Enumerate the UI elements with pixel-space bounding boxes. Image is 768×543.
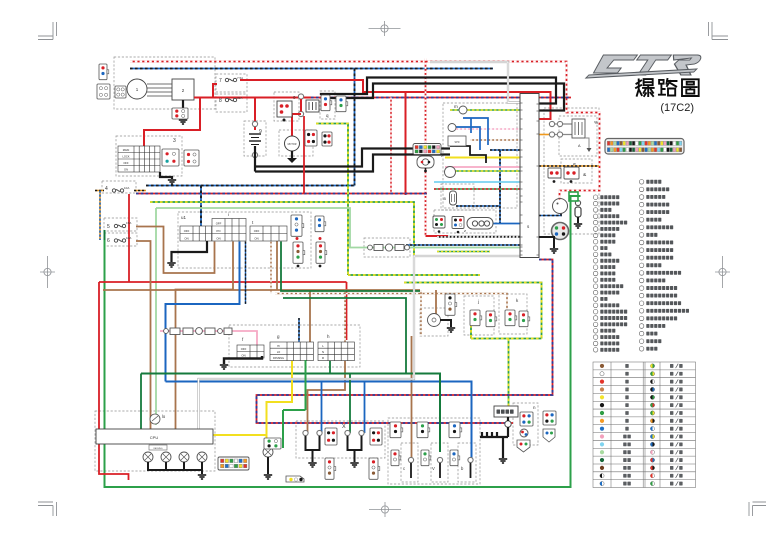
connector row bottom 3	[449, 422, 462, 438]
svg-text:4: 4	[105, 186, 108, 192]
wire pink resistor chain to switch f	[160, 331, 257, 345]
svg-text:LOCK: LOCK	[122, 155, 129, 159]
svg-text:N: N	[322, 350, 324, 354]
connectors right of u1	[291, 215, 304, 236]
meter lamp high beam	[263, 447, 273, 457]
wire red rectifier output	[194, 84, 217, 98]
wire brown to ignition coil 1	[308, 360, 346, 433]
svg-text:OFF: OFF	[184, 229, 190, 233]
svg-text:15A: 15A	[126, 221, 131, 225]
AC generator 1 symbol	[127, 79, 172, 99]
ground main switch	[160, 172, 172, 179]
svg-text:j: j	[477, 299, 479, 304]
ignition coil A box	[572, 119, 585, 138]
left connector block	[97, 84, 110, 99]
wire green-yellow bus mid	[150, 202, 414, 275]
enclosure meter assembly box	[443, 103, 517, 208]
legend list left column items 1-25	[593, 195, 598, 200]
enclosure CPU unit box	[95, 411, 215, 471]
unit s pin marks	[520, 103, 539, 255]
rear connectors &	[548, 168, 561, 178]
connectors right of n	[543, 411, 556, 425]
wire red lower-left loop	[99, 281, 347, 283]
connector mid j area	[445, 294, 457, 315]
left connector pair top	[99, 64, 109, 80]
wire yellow branch to CPU	[214, 434, 267, 436]
svg-text:30A: 30A	[237, 96, 242, 100]
wire green high beam lamp	[283, 360, 306, 448]
svg-text:LO: LO	[277, 351, 280, 354]
switch table i	[212, 219, 246, 242]
svg-text:9: 9	[259, 129, 262, 135]
wire cyan meter line	[434, 181, 520, 183]
svg-text:8: 8	[219, 98, 222, 104]
wire orange dashed rear bus	[539, 165, 599, 167]
wire blue drop to coil 2	[364, 383, 366, 434]
svg-text:u1: u1	[181, 215, 187, 220]
wire brown fuse5 to switches	[136, 227, 215, 274]
title 線路圖 (wiring diagram)	[636, 79, 654, 96]
wire blue dashed meter line	[490, 149, 520, 151]
CPU indicator lamps	[143, 452, 153, 462]
trailer multi-pin connector	[218, 457, 249, 470]
unit s main connector	[520, 94, 539, 258]
svg-text:5: 5	[107, 224, 110, 230]
wire red-blue dashed feed continuation	[311, 97, 571, 99]
svg-text:R: R	[322, 356, 324, 360]
svg-text:%: %	[594, 120, 598, 125]
wire dark green trunk lower	[141, 374, 440, 453]
y connector strip	[413, 144, 441, 155]
connector row bottom 2	[417, 422, 430, 438]
wire red-blue dashed bus mid	[136, 193, 427, 195]
wire blue X box drop	[321, 430, 323, 433]
flasher relay	[428, 314, 441, 327]
svg-text:ON: ON	[241, 354, 245, 358]
ground horn stub	[424, 170, 427, 173]
ground rectifier	[182, 100, 184, 119]
svg-text:ON: ON	[254, 236, 258, 240]
wire black meter links	[450, 146, 486, 163]
wire red dashed main loop top	[130, 62, 600, 200]
svg-text:i: i	[228, 212, 229, 217]
switch g table	[270, 342, 313, 361]
svg-text:MAIN: MAIN	[123, 148, 130, 152]
horn coil oval	[467, 218, 493, 230]
connector k pins	[505, 310, 517, 326]
wire brown trunk mid	[103, 289, 420, 291]
wire blue meter staircase	[452, 118, 488, 150]
svg-text:X: X	[342, 424, 346, 430]
left connector small	[115, 86, 126, 98]
wire light green loop from fuse area to unit s	[156, 208, 521, 425]
main connector strip	[605, 139, 684, 155]
round main connector	[552, 223, 569, 240]
wire black battery negative	[254, 146, 256, 172]
enclosure starter motor box	[279, 130, 313, 156]
wire blue dashed feed to switch g	[298, 318, 300, 342]
spark gap	[585, 138, 589, 148]
wire blue-black drop into switch u1	[200, 186, 202, 227]
ignition coil group 2	[345, 430, 350, 435]
enclosure ignition coils X box	[296, 421, 385, 458]
wire blue-black sender line down to horn coil	[456, 150, 500, 224]
wire green-yellow meter line	[450, 109, 520, 111]
wire black flasher to ground	[440, 320, 451, 327]
enclosure handlebar left switch f-g-h box	[229, 325, 360, 367]
svg-text:OFF: OFF	[254, 229, 260, 233]
speed sensor box	[448, 136, 466, 146]
switch table u1 left	[180, 226, 212, 241]
wire link coil bullets	[555, 124, 572, 135]
connectors q	[321, 95, 332, 111]
connector c	[408, 457, 413, 462]
meter dial symbol	[150, 414, 160, 424]
enclosure relay 0 box	[274, 92, 299, 121]
enclosure flasher relay box	[420, 308, 448, 336]
wire green-red dashed meter line	[434, 188, 520, 190]
connector row bottom 1	[390, 422, 403, 438]
wire black to ground right	[539, 237, 554, 248]
svg-text:V: V	[432, 466, 435, 471]
connector V	[437, 457, 442, 462]
wire brown drop to flasher relay	[435, 290, 437, 314]
enclosure fuse 8 box	[216, 94, 247, 112]
wire pink meter dashed line	[450, 128, 520, 130]
wire pink meter solid line	[445, 166, 520, 168]
connector b	[468, 457, 473, 462]
ground switch u1	[172, 241, 208, 262]
svg-text:ON: ON	[184, 236, 188, 240]
wire brown to connector c	[411, 336, 413, 458]
square connector z2	[452, 217, 464, 229]
wire red feed fuse8 to relays	[189, 97, 311, 99]
wire blue vertical from top bus to relay area	[354, 69, 356, 186]
wire blue-black bus top	[130, 68, 493, 70]
meter bulb 1	[459, 106, 467, 114]
wire black trunk battery riser to unit s upper	[320, 78, 556, 104]
wire green outer loop	[105, 196, 581, 487]
enclosure handlebar switch unit u1 box	[178, 212, 311, 268]
wire brown dashed trunk to k	[275, 294, 507, 311]
connector j pins	[470, 310, 482, 326]
wire white loop unit s to CPU	[199, 256, 521, 429]
wire black CPU lamp grounds	[148, 462, 202, 474]
wire black trunk battery to meter loop	[255, 149, 450, 167]
wire blue switch i drop staircase	[166, 242, 240, 382]
svg-text:PASSING: PASSING	[273, 357, 284, 360]
wire colour code table	[593, 362, 696, 488]
wire green-yellow vertical from relay	[316, 124, 348, 276]
fuse 6 symbol	[114, 239, 125, 242]
legend list right column items 26-48	[639, 180, 644, 185]
switch f table	[237, 345, 264, 358]
enclosure ignition coil unit % box	[559, 116, 597, 156]
horn	[417, 156, 434, 168]
square connector z1	[433, 216, 445, 228]
svg-text:c: c	[403, 466, 405, 471]
connector below rectifier	[172, 108, 188, 119]
indicator lamp PASSING label	[149, 445, 167, 450]
enclosure capacitor 9 box	[244, 121, 266, 156]
connector near high beam	[264, 438, 281, 449]
svg-text:w: w	[573, 162, 576, 166]
switch h table	[318, 342, 354, 361]
wire brown switch t drop solid	[276, 240, 278, 291]
enclosure main switch box 3	[116, 136, 182, 176]
meter fuel gauge	[445, 167, 456, 178]
connector pair right of q	[336, 96, 348, 112]
fuse 7 symbol and label	[225, 78, 236, 81]
svg-text:ON: ON	[124, 168, 128, 172]
enclosure bottom connector row box	[388, 418, 480, 484]
wire blue trunk lower	[166, 382, 472, 462]
wire green-yellow meter line 2	[450, 170, 520, 172]
svg-text:6: 6	[107, 238, 110, 244]
svg-text:PASSING: PASSING	[153, 447, 162, 450]
enclosure relay B box	[441, 184, 474, 210]
wire blue horn coil to unit s	[493, 223, 520, 225]
svg-text:OFF: OFF	[123, 161, 129, 165]
wire green-yellow bus to k loop	[404, 283, 542, 408]
wire red main switch riser	[254, 98, 256, 131]
wire brown fuse6 down to CPU	[136, 241, 151, 429]
wire orange dashed fuse4 feed	[95, 190, 146, 192]
svg-text:3: 3	[173, 138, 176, 144]
enclosure horn box	[434, 210, 496, 233]
enclosure resistor chain box	[364, 238, 410, 257]
svg-text:OFF: OFF	[241, 347, 247, 351]
wire red dashed vertical branch 1	[390, 98, 392, 195]
breaker bullet	[505, 421, 511, 427]
wire dark green from switch t down	[281, 242, 420, 292]
wire orange-blue dashed left riser	[99, 191, 101, 241]
enclosure fuse 6 box	[104, 233, 137, 246]
wire dark green to coil 2	[349, 374, 351, 434]
wire black dashed relay D to unit s	[448, 236, 521, 238]
wire dark green second trunk	[283, 298, 406, 374]
GTR logo	[586, 55, 702, 78]
wire red left edge down	[99, 282, 129, 480]
wire red left riser	[128, 194, 130, 282]
wire black trunk second upper	[326, 84, 564, 111]
svg-text:OFF: OFF	[216, 221, 222, 225]
enclosure connector c box	[401, 443, 418, 482]
wire black trunk battery to meter loop second	[255, 155, 450, 172]
rectifier box 2	[172, 79, 194, 100]
ground high beam lamp	[267, 457, 269, 474]
wire brown dashed meter line	[470, 139, 520, 141]
pentagon connector below n	[517, 440, 530, 452]
svg-text:CPU: CPU	[150, 435, 159, 440]
enclosure right assembly box	[544, 108, 599, 234]
svg-text:z: z	[464, 228, 466, 233]
wire blue-black bus mid	[146, 185, 355, 187]
connector far right of u1	[316, 242, 327, 263]
wire yellow meter line	[445, 157, 520, 159]
wire yellow from switch g to CPU and meter lamp	[267, 360, 293, 447]
ignition coil group 1	[303, 430, 308, 435]
wire brown dashed switch t drop	[270, 240, 272, 294]
enclosure AC generator unit box	[114, 57, 215, 109]
ground switch f	[224, 356, 262, 364]
svg-text:7: 7	[219, 78, 222, 84]
ignition coil A bullets	[549, 121, 554, 126]
wire dark green switch h drop	[329, 360, 331, 374]
wire dark green left lower riser	[104, 230, 106, 240]
wire green-yellow bus lower	[348, 274, 480, 276]
starter relay bullets	[298, 94, 303, 99]
fuel sender relay B	[450, 191, 457, 205]
CPU block	[96, 429, 213, 444]
wire red stub down	[346, 282, 348, 340]
starter relay coil	[306, 100, 319, 112]
enclosure connector j box	[464, 296, 494, 335]
wire red solid vertical branch	[405, 92, 407, 195]
wire red starter relay to motor	[292, 99, 301, 136]
svg-text:(17C2): (17C2)	[660, 102, 694, 114]
fusible link	[575, 200, 580, 205]
ground starter motor	[291, 151, 293, 158]
enclosure fuse 4 box	[102, 181, 136, 193]
svg-text:m: m	[454, 104, 458, 109]
starter motor	[285, 136, 300, 151]
wire red from fuse7 wrapping to unit s	[240, 80, 551, 119]
wire dark green drop to CPU	[140, 374, 142, 430]
svg-text:HI: HI	[277, 345, 280, 348]
wire red dashed vertical to relay D	[425, 59, 427, 237]
wire orange ignition coil feed	[538, 134, 552, 136]
lamp chain to switch f	[164, 328, 232, 335]
meter bulb 2	[448, 124, 456, 132]
spark plug connectors group 2	[369, 458, 380, 479]
enclosure connector k box	[499, 294, 527, 334]
enclosure fuse 5 box	[104, 218, 137, 231]
battery 9	[252, 121, 257, 126]
enclosure connector V box	[431, 443, 448, 482]
enclosure connectors q box	[320, 91, 335, 119]
wire red dashed generator feed	[559, 198, 561, 201]
svg-text:SPD: SPD	[455, 141, 460, 144]
fuse 4 symbol	[112, 189, 123, 192]
wire black breaker comb	[480, 417, 508, 458]
resistor chain mid	[368, 244, 410, 251]
circuit breaker box	[494, 406, 518, 417]
fuse 5 symbol	[114, 224, 125, 227]
enclosure rear unit & box	[561, 159, 592, 183]
switch table t	[250, 226, 287, 241]
wire brown dashed feed to switch h	[344, 290, 346, 342]
wire brown feeds to switch g	[309, 290, 311, 342]
wire brown switch drop to CPU	[176, 242, 234, 430]
enclosure rear n box	[513, 403, 538, 445]
AC generator right	[553, 199, 568, 214]
main switch 3 table	[118, 146, 160, 172]
wire red battery feed riser	[303, 116, 305, 194]
enclosure fuse 7 box	[216, 74, 247, 92]
svg-text:10A: 10A	[124, 186, 129, 190]
svg-text:MOTOR: MOTOR	[288, 143, 297, 146]
wire blue dashed parallel drop	[245, 242, 247, 305]
relay 0	[277, 101, 292, 117]
joint connector	[286, 476, 304, 482]
legend item 1 marker	[569, 192, 578, 201]
wire white top to unit s	[430, 62, 520, 103]
wire red-blue dashed border rectangle	[257, 260, 553, 424]
svg-text:7.5A: 7.5A	[237, 76, 243, 80]
main switch connectors	[162, 149, 179, 166]
svg-text:ON: ON	[216, 236, 220, 240]
spark plug connectors group 1	[325, 458, 336, 479]
wire green dashed meter lower	[437, 251, 490, 253]
n box connectors	[520, 412, 533, 426]
wire brown dashed vertical	[420, 290, 422, 336]
svg-text:10A: 10A	[126, 236, 131, 240]
fuse 8 symbol and label	[225, 98, 236, 101]
wire black dashed meter bus	[437, 236, 521, 238]
connectors right of motor	[305, 130, 317, 146]
wire blue drop to coil 1	[321, 383, 323, 434]
wire blue generator output	[521, 210, 561, 216]
wire blue dashed relay bus	[406, 244, 521, 246]
enclosure connector b box	[458, 443, 476, 482]
